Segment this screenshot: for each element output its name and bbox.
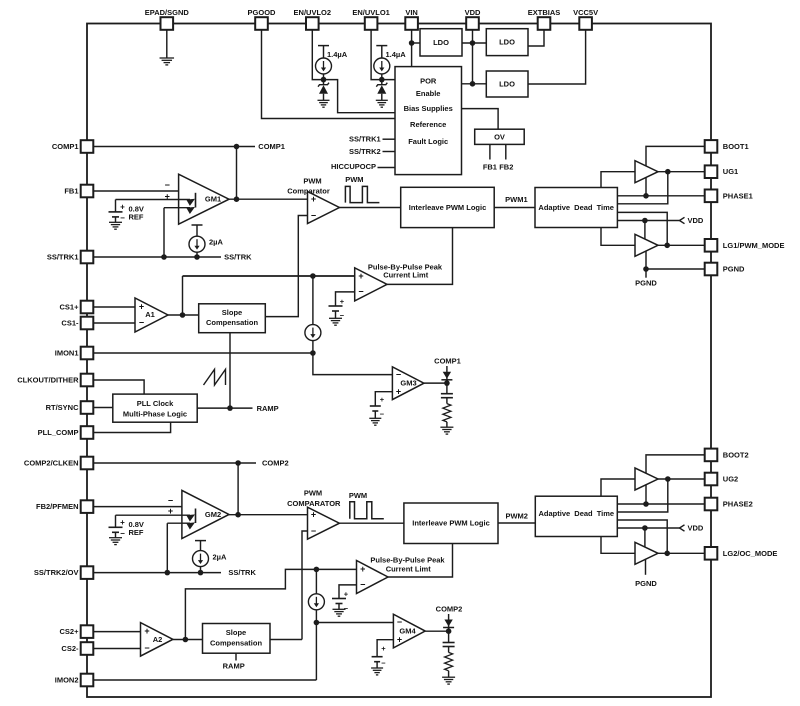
svg-text:+: + [311,510,316,520]
svg-text:−: − [120,214,125,223]
svg-text:EN/UVLO2: EN/UVLO2 [294,8,332,17]
svg-text:+: + [144,626,149,636]
svg-text:COMP1: COMP1 [52,142,79,151]
svg-text:+: + [396,387,401,397]
svg-text:PGND: PGND [635,579,657,588]
svg-text:COMP2/CLKEN: COMP2/CLKEN [24,459,79,468]
svg-text:Adaptive Dead Time: Adaptive Dead Time [539,509,615,518]
svg-text:VDD: VDD [688,216,704,225]
svg-text:A2: A2 [153,635,163,644]
svg-text:BOOT1: BOOT1 [723,142,749,151]
svg-text:VDD: VDD [688,524,704,533]
svg-text:VDD: VDD [465,8,481,17]
svg-text:Current Limt: Current Limt [383,270,429,279]
svg-text:−: − [311,526,316,536]
svg-text:−: − [380,410,385,419]
svg-text:−: − [120,529,125,538]
svg-text:−: − [344,604,349,613]
svg-text:COMP2: COMP2 [436,605,463,614]
svg-text:+: + [381,644,386,653]
svg-text:REF: REF [129,212,144,221]
svg-text:POR: POR [420,77,437,86]
svg-text:Comparator: Comparator [287,186,330,195]
svg-text:UG1: UG1 [723,167,738,176]
svg-text:PWM1: PWM1 [505,195,528,204]
svg-text:+: + [360,564,365,574]
svg-text:−: − [144,643,149,653]
svg-text:Compensation: Compensation [210,639,263,648]
svg-text:GM3: GM3 [400,379,416,388]
svg-text:−: − [311,211,316,221]
svg-text:SS/TRK1: SS/TRK1 [349,135,381,144]
svg-text:−: − [397,617,402,627]
svg-text:+: + [139,302,144,312]
svg-text:+: + [311,194,316,204]
svg-text:UG2: UG2 [723,475,738,484]
svg-text:COMPARATOR: COMPARATOR [287,499,341,508]
svg-text:PGND: PGND [635,279,657,288]
svg-text:LDO: LDO [499,38,515,47]
svg-text:Current Limt: Current Limt [386,565,432,574]
svg-text:+: + [340,297,345,306]
svg-text:PWM2: PWM2 [505,512,528,521]
svg-text:PWM: PWM [303,177,321,186]
svg-text:COMP1: COMP1 [434,357,461,366]
svg-text:Compensation: Compensation [206,318,259,327]
svg-text:EN/UVLO1: EN/UVLO1 [352,8,390,17]
svg-text:SS/TRK1: SS/TRK1 [47,253,79,262]
svg-text:−: − [396,369,401,379]
svg-text:EPAD/SGND: EPAD/SGND [145,8,190,17]
svg-text:2µA: 2µA [209,238,223,247]
svg-text:VCC5V: VCC5V [573,8,598,17]
svg-text:Slope: Slope [222,308,242,317]
svg-text:PWM: PWM [345,175,363,184]
svg-text:LG1/PWM_MODE: LG1/PWM_MODE [723,241,785,250]
svg-text:GM1: GM1 [205,195,221,204]
svg-text:REF: REF [129,528,144,537]
svg-text:SS/TRK: SS/TRK [224,253,252,262]
svg-text:PWM: PWM [304,488,322,497]
svg-text:IMON2: IMON2 [55,676,79,685]
svg-text:SS/TRK: SS/TRK [228,568,256,577]
svg-text:BOOT2: BOOT2 [723,450,749,459]
svg-text:Interleave PWM Logic: Interleave PWM Logic [412,519,490,528]
svg-text:Enable: Enable [416,89,441,98]
svg-text:VIN: VIN [405,8,418,17]
svg-text:+: + [120,203,125,212]
svg-text:PWM: PWM [349,491,367,500]
svg-text:OV: OV [494,133,505,142]
svg-text:FB1: FB1 [64,187,78,196]
svg-text:IMON1: IMON1 [55,349,79,358]
svg-text:−: − [165,180,170,190]
svg-text:Fault Logic: Fault Logic [408,137,448,146]
svg-text:LDO: LDO [433,38,449,47]
svg-text:GM2: GM2 [205,510,221,519]
svg-text:−: − [358,287,363,297]
svg-text:HICCUPOCP: HICCUPOCP [331,162,376,171]
svg-text:2µA: 2µA [213,553,227,562]
svg-text:PHASE1: PHASE1 [723,191,753,200]
svg-text:RAMP: RAMP [223,662,245,671]
svg-text:A1: A1 [145,310,155,319]
svg-text:EXTBIAS: EXTBIAS [528,8,561,17]
svg-text:LDO: LDO [499,80,515,89]
svg-text:LG2/OC_MODE: LG2/OC_MODE [723,549,778,558]
svg-text:CS2-: CS2- [61,644,79,653]
svg-text:PLL Clock: PLL Clock [137,399,174,408]
svg-text:−: − [139,318,144,328]
svg-text:PLL_COMP: PLL_COMP [38,428,79,437]
svg-text:Slope: Slope [226,628,246,637]
svg-text:PHASE2: PHASE2 [723,500,753,509]
svg-text:Interleave PWM Logic: Interleave PWM Logic [409,203,487,212]
svg-text:COMP2: COMP2 [262,459,289,468]
svg-text:PGND: PGND [723,265,745,274]
svg-text:Reference: Reference [410,120,446,129]
svg-text:COMP1: COMP1 [258,142,285,151]
svg-text:+: + [380,395,385,404]
svg-text:CS2+: CS2+ [60,627,80,636]
svg-text:+: + [120,518,125,527]
svg-text:1.4µA: 1.4µA [327,50,348,59]
svg-text:Pulse-By-Pulse Peak: Pulse-By-Pulse Peak [370,556,445,565]
svg-text:+: + [397,635,402,645]
svg-text:+: + [344,590,349,599]
svg-text:−: − [381,659,386,668]
svg-text:Bias Supplies: Bias Supplies [404,104,453,113]
svg-text:Adaptive Dead Time: Adaptive Dead Time [538,203,614,212]
svg-text:PGOOD: PGOOD [248,8,277,17]
svg-text:FB1: FB1 [483,163,497,172]
svg-text:FB2/PFMEN: FB2/PFMEN [36,502,79,511]
svg-text:−: − [168,496,173,506]
svg-text:SS/TRK2: SS/TRK2 [349,147,381,156]
svg-text:CLKOUT/DITHER: CLKOUT/DITHER [17,376,79,385]
svg-text:1.4µA: 1.4µA [386,50,407,59]
svg-text:RAMP: RAMP [257,404,279,413]
svg-text:Multi-Phase Logic: Multi-Phase Logic [123,409,187,418]
svg-text:SS/TRK2/OV: SS/TRK2/OV [34,568,79,577]
svg-text:−: − [360,580,365,590]
svg-text:−: − [340,311,345,320]
svg-text:RT/SYNC: RT/SYNC [46,403,80,412]
svg-text:CS1+: CS1+ [60,303,80,312]
svg-text:FB2: FB2 [499,163,513,172]
svg-text:CS1-: CS1- [61,319,79,328]
svg-text:+: + [358,271,363,281]
